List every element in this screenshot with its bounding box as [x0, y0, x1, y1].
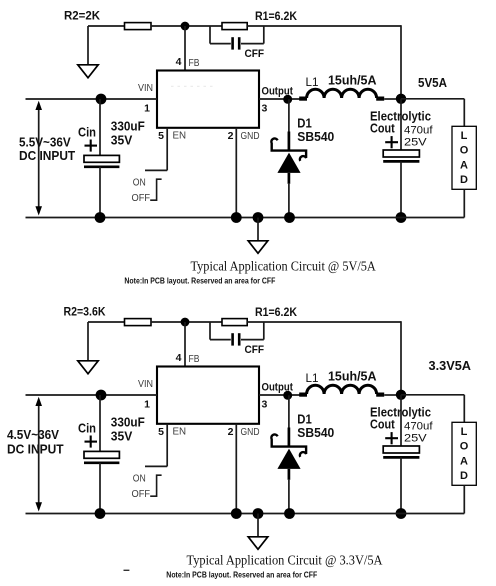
wire ground stub — [257, 218, 259, 241]
svg-text:OFF: OFF — [132, 193, 151, 204]
inductor L1 — [299, 96, 307, 100]
wire ground rail — [26, 217, 465, 219]
resistor R1 — [222, 23, 247, 30]
svg-text:35V: 35V — [111, 133, 133, 148]
svg-text:FB: FB — [189, 354, 200, 365]
wire Cout top — [400, 395, 402, 446]
wire Cin top — [99, 395, 101, 451]
svg-text:Cin: Cin — [78, 421, 96, 435]
node FB junction dot — [181, 318, 190, 327]
svg-text:4: 4 — [176, 56, 182, 68]
node Cout bottom junction dot — [396, 508, 407, 519]
arrow DC input range — [38, 104, 40, 214]
svg-text:35V: 35V — [111, 429, 133, 444]
ground symbol (rail) — [248, 241, 268, 254]
ground symbol (R2) — [78, 361, 98, 374]
wire output rail to load — [401, 98, 464, 100]
wire top rail middle segment (R2 to R1) — [151, 25, 222, 27]
svg-text:Note:In PCB layout. Reserved a: Note:In PCB layout. Reserved an area for… — [166, 570, 317, 580]
svg-text:1: 1 — [144, 102, 150, 114]
svg-text:SB540: SB540 — [297, 426, 334, 440]
wire D1 top — [288, 395, 290, 428]
wire Cin bottom — [99, 463, 101, 514]
wire Cin top — [99, 99, 101, 155]
svg-text:CFF: CFF — [245, 48, 265, 60]
wire D1 bottom — [288, 173, 291, 184]
svg-text:15uh/5A: 15uh/5A — [328, 369, 377, 384]
plus sign Cin polarity — [85, 441, 98, 443]
svg-text:R1=6.2K: R1=6.2K — [255, 305, 297, 319]
wire GND pin drop — [235, 128, 237, 218]
wire top rail right segment (R1 to output node) — [247, 25, 401, 27]
node Cin ground junction dot — [95, 508, 106, 519]
switch ON/OFF bracket — [150, 475, 161, 496]
load box — [452, 422, 476, 485]
wire load bottom — [463, 485, 465, 513]
wire output pin to node — [259, 98, 300, 100]
svg-text:Typical Application Circuit @: Typical Application Circuit @ 5V/5A — [191, 259, 376, 274]
svg-text:VIN: VIN — [138, 379, 153, 390]
svg-text:ON: ON — [133, 178, 146, 189]
wire CFF branch right rise — [241, 339, 264, 341]
svg-text:330uF: 330uF — [111, 415, 145, 430]
wire load bottom — [463, 189, 465, 217]
node input junction dot — [96, 390, 107, 401]
resistor R1 — [222, 319, 247, 326]
node Cin ground junction dot — [95, 212, 106, 223]
svg-text:O: O — [460, 145, 469, 157]
svg-text:GND: GND — [241, 131, 260, 142]
switch ON/OFF bracket — [150, 179, 161, 200]
node Cout bottom junction dot — [396, 212, 407, 223]
plus sign Cin polarity — [85, 145, 98, 147]
svg-text:DC INPUT: DC INPUT — [7, 442, 64, 456]
svg-text:470uf: 470uf — [404, 421, 433, 433]
svg-text:R2=3.6K: R2=3.6K — [64, 305, 106, 319]
node output junction dot — [283, 95, 292, 104]
svg-text:5V5A: 5V5A — [418, 76, 447, 90]
node D1 ground junction dot — [284, 212, 295, 223]
node D1 ground junction dot — [284, 508, 295, 519]
svg-text:L1: L1 — [306, 75, 319, 89]
wire D1 top — [288, 99, 290, 132]
wire CFF branch right rise — [241, 43, 264, 45]
svg-text:D: D — [460, 470, 468, 482]
node GND pin junction dot — [231, 508, 242, 519]
svg-text:D: D — [460, 174, 468, 186]
svg-text:5: 5 — [158, 130, 164, 142]
svg-text:OFF: OFF — [132, 489, 151, 500]
op-amp regulator IC U1 body — [157, 71, 259, 128]
node GND pin junction dot — [231, 212, 242, 223]
svg-text:R2=2K: R2=2K — [64, 9, 100, 23]
wire ground rail — [26, 513, 465, 515]
svg-text:R1=6.2K: R1=6.2K — [255, 9, 297, 23]
svg-text:L: L — [461, 426, 468, 438]
svg-text:FB: FB — [189, 58, 200, 69]
svg-text:ON: ON — [133, 474, 146, 485]
svg-text:3: 3 — [262, 398, 268, 410]
wire input rail (VIN) — [26, 394, 158, 396]
svg-text:470uf: 470uf — [404, 125, 433, 137]
svg-text:EN: EN — [173, 130, 187, 141]
load box — [452, 126, 476, 189]
svg-text:A: A — [460, 455, 468, 467]
wire top rail middle segment (R2 to R1) — [151, 321, 222, 323]
wire Cout top — [400, 99, 402, 150]
svg-text:CFF: CFF — [245, 344, 265, 356]
svg-text:15uh/5A: 15uh/5A — [328, 73, 377, 88]
resistor R2 — [125, 23, 152, 30]
svg-text:2: 2 — [228, 426, 234, 438]
wire D1 bottom — [288, 469, 291, 480]
capacitor CFF — [231, 37, 234, 49]
svg-text:4.5V~36V: 4.5V~36V — [7, 428, 60, 442]
capacitor Cin — [84, 451, 119, 458]
capacitor Cout — [383, 150, 419, 157]
capacitor Cout — [383, 446, 419, 453]
arrow DC input range — [38, 400, 40, 510]
svg-text:D1: D1 — [297, 413, 312, 427]
ground symbol (R2) — [78, 65, 98, 78]
svg-text:SB540: SB540 — [297, 130, 334, 144]
node output rail junction dot — [396, 390, 406, 400]
wire output rail to load — [401, 394, 464, 396]
diode D1 schottky cathode bar — [271, 138, 306, 160]
svg-text:3: 3 — [262, 102, 268, 114]
ghost marks inside IC — [171, 85, 215, 87]
svg-text:L1: L1 — [306, 371, 319, 385]
wire input rail (VIN) — [26, 98, 158, 100]
svg-text:5.5V~36V: 5.5V~36V — [19, 135, 71, 149]
inductor L1 — [299, 393, 307, 397]
op-amp regulator IC U1 body — [157, 367, 259, 424]
node FB junction dot — [181, 22, 190, 31]
wire output pin to node — [259, 394, 300, 396]
svg-text:3.3V5A: 3.3V5A — [429, 359, 472, 373]
svg-text:EN: EN — [173, 426, 187, 437]
svg-text:25V: 25V — [404, 136, 427, 148]
svg-text:25V: 25V — [404, 432, 427, 444]
capacitor Cin — [84, 155, 119, 162]
node input junction dot — [96, 94, 107, 105]
diode D1 anode triangle — [277, 153, 300, 173]
svg-text:L: L — [461, 130, 468, 142]
wire CFF branch left drop — [209, 322, 211, 340]
wire FB stub (junction to pin 4) — [184, 322, 186, 367]
wire R2 ground drop — [87, 26, 89, 65]
plus sign Cout polarity — [385, 141, 398, 143]
diode D1 schottky cathode bar — [271, 434, 306, 456]
svg-text:D1: D1 — [297, 117, 312, 131]
svg-text:Cout: Cout — [370, 417, 395, 431]
node output junction dot — [283, 391, 292, 400]
wire top rail left segment (R2 ground to R2) — [88, 321, 125, 323]
svg-text:330uF: 330uF — [111, 119, 145, 134]
svg-text:5: 5 — [158, 426, 164, 438]
svg-text:Cin: Cin — [78, 125, 96, 139]
resistor R2 — [125, 319, 152, 326]
plus sign Cout polarity — [385, 437, 398, 439]
ground symbol (rail) — [248, 537, 268, 550]
wire FB stub (junction to pin 4) — [184, 26, 186, 71]
wire GND pin drop — [235, 424, 237, 514]
wire EN pin drop — [166, 128, 168, 171]
wire CFF branch left drop — [209, 26, 211, 44]
wire Cin bottom — [99, 167, 101, 218]
wire EN pin drop — [166, 424, 168, 467]
wire top rail right segment (R1 to output node) — [247, 321, 401, 323]
svg-text:O: O — [460, 441, 469, 453]
svg-text:1: 1 — [144, 398, 150, 410]
node output rail junction dot — [396, 94, 406, 104]
wire Cout bottom — [400, 457, 402, 513]
svg-text:DC INPUT: DC INPUT — [19, 149, 76, 163]
node ground symbol junction dot — [253, 508, 264, 519]
wire R2 ground drop — [87, 322, 89, 361]
svg-text:4: 4 — [176, 352, 182, 364]
svg-text:Note:In PCB layout. Reserved a: Note:In PCB layout. Reserved an area for… — [124, 276, 275, 286]
node ground symbol junction dot — [253, 212, 264, 223]
svg-text:Cout: Cout — [370, 121, 395, 135]
diode D1 anode triangle — [277, 449, 300, 469]
wire Cout bottom — [400, 161, 402, 217]
wire ground stub — [257, 514, 259, 537]
svg-text:GND: GND — [241, 427, 260, 438]
svg-text:A: A — [460, 159, 468, 171]
stray dash mark — [124, 569, 130, 571]
svg-text:2: 2 — [228, 130, 234, 142]
svg-text:Typical Application Circuit @: Typical Application Circuit @ 3.3V/5A — [187, 553, 383, 568]
wire top rail left segment (R2 ground to R2) — [88, 25, 125, 27]
capacitor CFF — [231, 333, 234, 345]
svg-text:VIN: VIN — [138, 83, 153, 94]
